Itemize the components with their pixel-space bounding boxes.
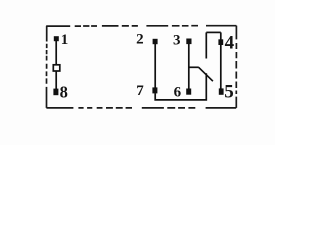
pin 3 terminal square <box>186 39 191 45</box>
svg-text:2: 2 <box>136 32 144 48</box>
relay outline dashed border top <box>46 25 236 27</box>
wire loop top <box>206 31 221 33</box>
wire pin2 to pin7 <box>154 44 156 88</box>
coil (open square) between pins 1 and 8 <box>53 65 60 71</box>
pin 4 terminal square <box>218 39 223 45</box>
svg-text:7: 7 <box>136 83 144 99</box>
pin 8 terminal square <box>53 89 58 96</box>
svg-text:8: 8 <box>60 82 68 101</box>
normally-open contact leg <box>205 32 207 58</box>
relay outline dashed border right <box>235 26 237 108</box>
svg-text:4: 4 <box>225 33 235 54</box>
wire pin4 to pin5 <box>220 32 222 89</box>
wire coil to pin8 <box>55 71 57 89</box>
relay outline dashed border bottom <box>46 107 236 109</box>
pin 6 terminal square <box>186 89 191 95</box>
contact stub from 3-6 wire <box>189 66 199 68</box>
pin 7 terminal square <box>152 87 157 93</box>
svg-text:1: 1 <box>61 32 69 48</box>
wire pin1 to coil <box>55 41 57 65</box>
pin 2 terminal square <box>153 39 158 44</box>
svg-text:3: 3 <box>173 33 181 49</box>
wire pin7 down to common rail <box>155 73 206 100</box>
wire pin3 to pin6 <box>188 44 190 89</box>
relay outline dashed border left <box>46 26 48 108</box>
svg-text:6: 6 <box>174 84 182 100</box>
pin 1 terminal square <box>54 36 59 41</box>
switch armature diagonal <box>199 67 213 81</box>
pin 5 terminal square <box>219 88 224 94</box>
svg-text:5: 5 <box>224 81 234 102</box>
